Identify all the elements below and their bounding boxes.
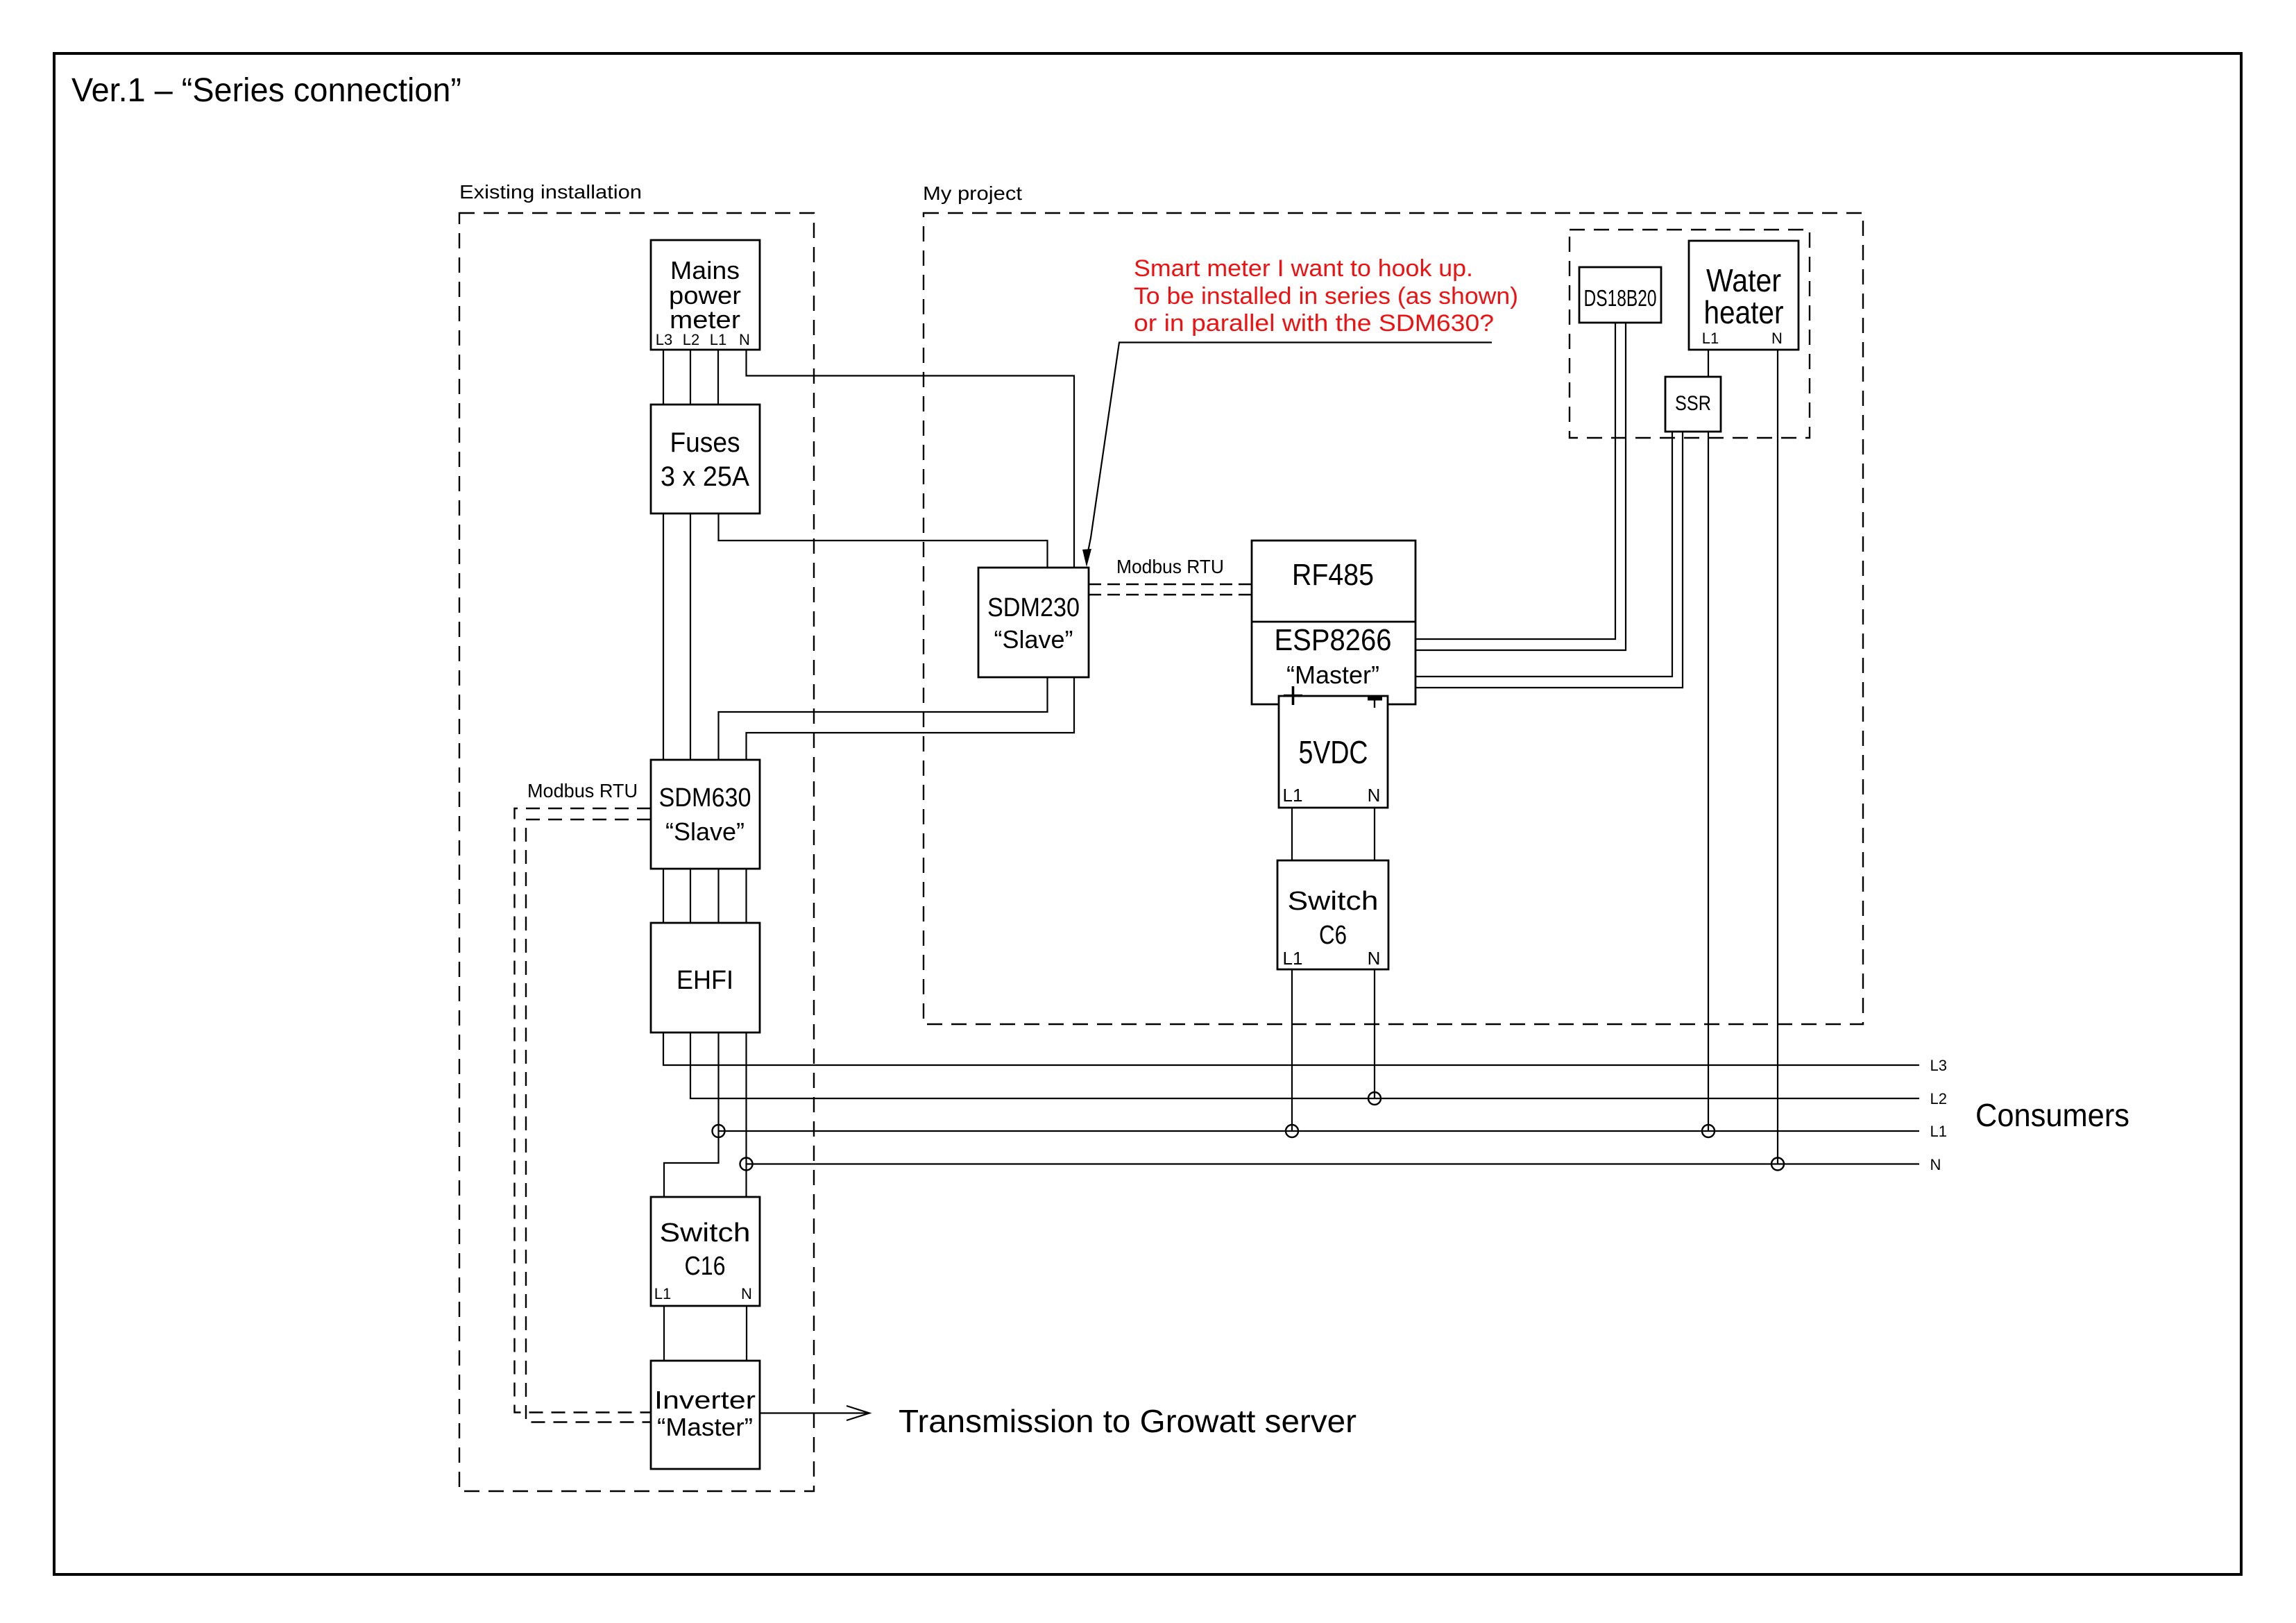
svg-text:heater: heater bbox=[1704, 294, 1784, 330]
svg-text:Switch: Switch bbox=[660, 1218, 751, 1248]
svg-text:My project: My project bbox=[923, 182, 1022, 204]
svg-text:SSR: SSR bbox=[1675, 392, 1711, 415]
svg-text:ESP8266: ESP8266 bbox=[1275, 623, 1392, 657]
svg-text:EHFI: EHFI bbox=[677, 966, 733, 995]
svg-text:N: N bbox=[739, 331, 750, 348]
svg-text:Modbus RTU: Modbus RTU bbox=[527, 780, 638, 801]
svg-text:L2: L2 bbox=[1930, 1090, 1947, 1107]
svg-text:“Slave”: “Slave” bbox=[665, 817, 745, 846]
svg-text:L1: L1 bbox=[654, 1285, 671, 1302]
svg-text:L3: L3 bbox=[656, 331, 672, 348]
svg-text:L1: L1 bbox=[1283, 948, 1303, 969]
svg-text:C6: C6 bbox=[1319, 921, 1347, 950]
svg-text:N: N bbox=[1368, 948, 1381, 969]
svg-text:Existing installation: Existing installation bbox=[459, 181, 642, 203]
svg-text:C16: C16 bbox=[685, 1252, 726, 1281]
svg-text:Modbus RTU: Modbus RTU bbox=[1116, 556, 1224, 577]
svg-text:Mains: Mains bbox=[670, 256, 740, 284]
svg-text:Inverter: Inverter bbox=[654, 1386, 756, 1414]
svg-text:L2: L2 bbox=[683, 331, 699, 348]
svg-text:“Slave”: “Slave” bbox=[994, 625, 1073, 654]
svg-text:N: N bbox=[1771, 330, 1783, 347]
svg-text:DS18B20: DS18B20 bbox=[1584, 285, 1657, 311]
svg-text:L1: L1 bbox=[1283, 785, 1303, 806]
svg-text:RF485: RF485 bbox=[1292, 558, 1374, 592]
svg-text:“Master”: “Master” bbox=[1286, 661, 1379, 689]
svg-text:L1: L1 bbox=[710, 331, 726, 348]
svg-text:N: N bbox=[741, 1285, 752, 1302]
svg-text:Consumers: Consumers bbox=[1975, 1097, 2129, 1133]
svg-text:“Master”: “Master” bbox=[657, 1413, 753, 1441]
svg-text:L1: L1 bbox=[1702, 330, 1719, 347]
svg-text:L3: L3 bbox=[1930, 1057, 1947, 1074]
svg-text:3 x 25A: 3 x 25A bbox=[661, 461, 749, 492]
svg-text:Smart meter I want to hook up.: Smart meter I want to hook up. bbox=[1134, 255, 1473, 282]
svg-text:5VDC: 5VDC bbox=[1299, 734, 1368, 770]
svg-text:L1: L1 bbox=[1930, 1123, 1947, 1140]
svg-text:Transmission to Growatt server: Transmission to Growatt server bbox=[899, 1403, 1357, 1439]
svg-text:Ver.1 – “Series connection”: Ver.1 – “Series connection” bbox=[71, 72, 461, 109]
svg-text:N: N bbox=[1930, 1156, 1941, 1173]
svg-text:Water: Water bbox=[1706, 262, 1781, 298]
svg-text:Switch: Switch bbox=[1288, 887, 1379, 916]
svg-text:or in parallel with the SDM630: or in parallel with the SDM630? bbox=[1134, 310, 1494, 337]
svg-text:To be installed in series (as: To be installed in series (as shown) bbox=[1134, 283, 1518, 309]
svg-text:N: N bbox=[1368, 785, 1381, 806]
svg-text:Fuses: Fuses bbox=[670, 427, 740, 458]
svg-text:SDM230: SDM230 bbox=[987, 593, 1080, 622]
svg-text:meter: meter bbox=[670, 305, 740, 334]
svg-text:SDM630: SDM630 bbox=[659, 783, 751, 813]
